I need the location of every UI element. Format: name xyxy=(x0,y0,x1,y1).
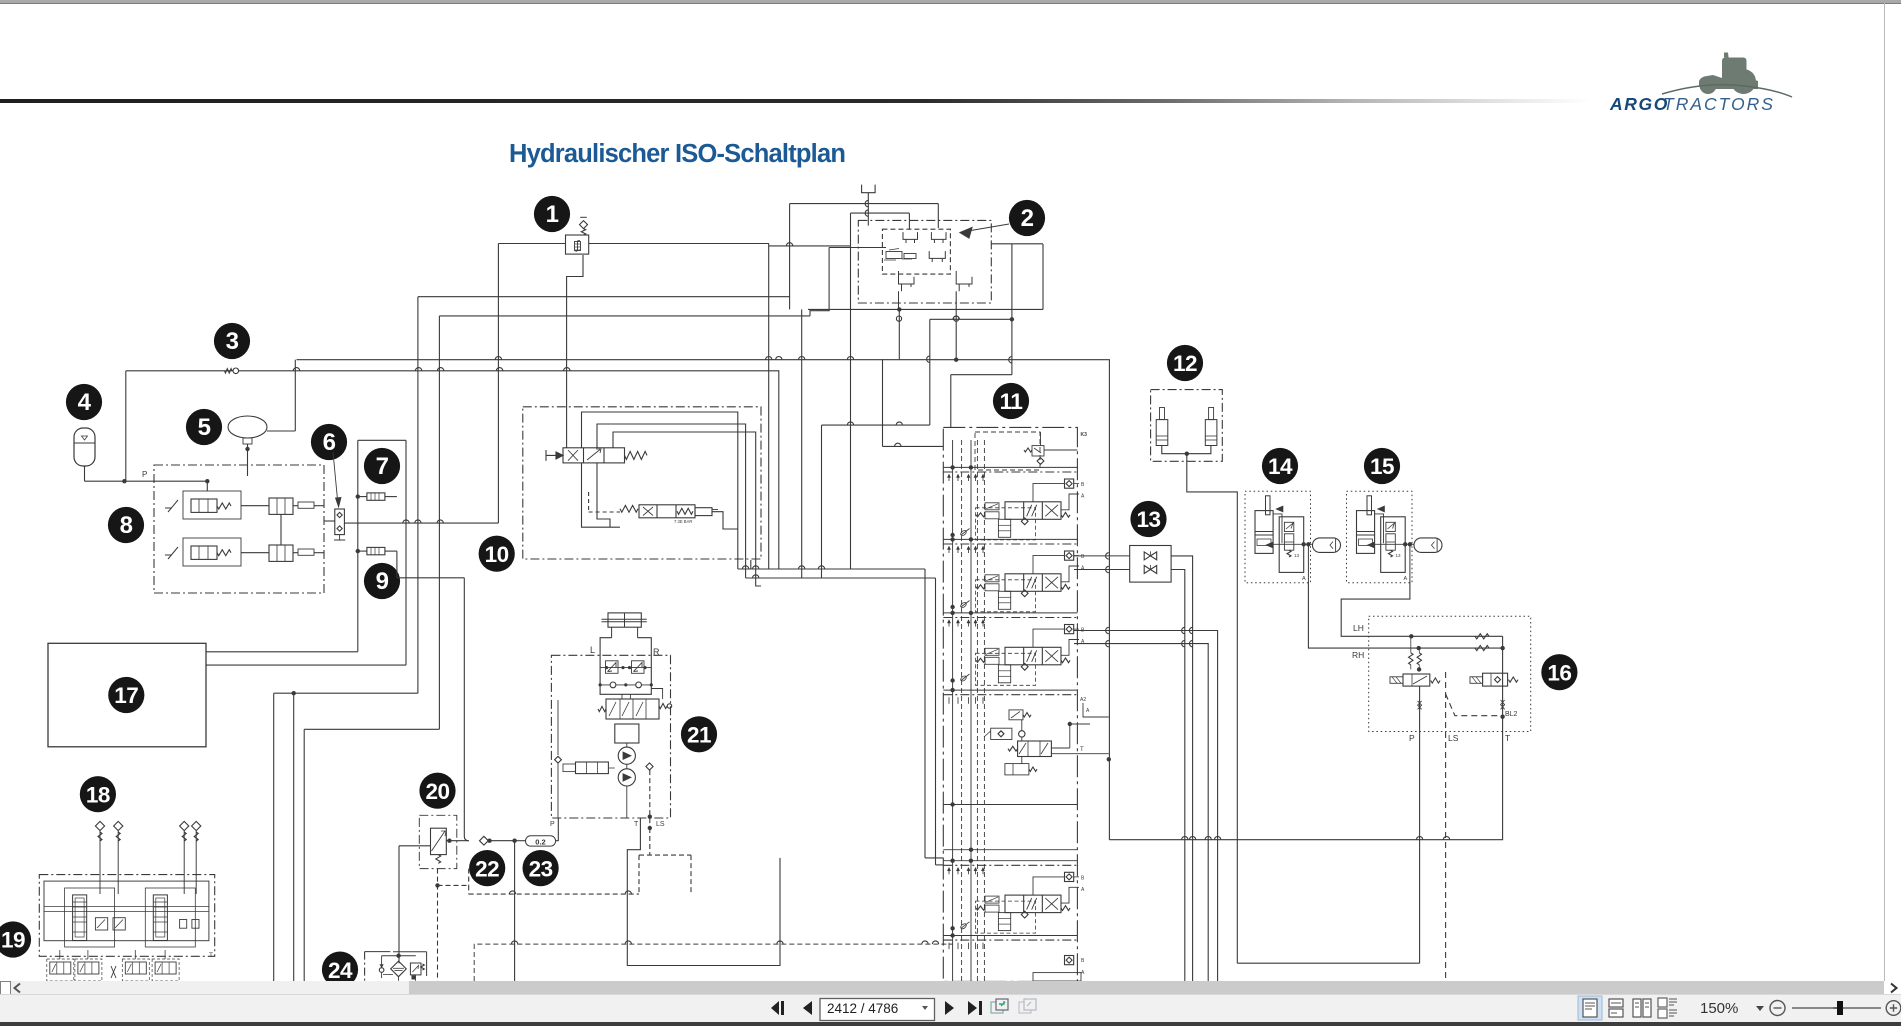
priority spool 6 xyxy=(324,452,345,540)
svg-text:17: 17 xyxy=(114,683,138,708)
accumulator 4 xyxy=(74,428,210,483)
pump valve upper xyxy=(165,481,324,519)
stack section S5 xyxy=(943,859,1085,934)
svg-text:P: P xyxy=(550,821,555,828)
toolbar icons xyxy=(0,994,1901,1022)
svg-text:20: 20 xyxy=(425,779,449,804)
hitch valve block 18/19 xyxy=(0,776,215,958)
valve stack 11 frame xyxy=(943,383,1087,982)
svg-text:LS: LS xyxy=(656,821,665,828)
cartridge 9 xyxy=(356,547,397,554)
svg-text:T: T xyxy=(1080,747,1084,753)
svg-text:P: P xyxy=(1409,733,1415,743)
wire item6 output xyxy=(344,520,498,523)
lower valves 19 xyxy=(47,950,179,981)
svg-text:13: 13 xyxy=(1136,507,1160,532)
svg-text:5: 5 xyxy=(198,414,211,441)
svg-text:A: A xyxy=(1081,887,1085,893)
svg-text:3: 3 xyxy=(226,328,239,355)
brake valve 14 xyxy=(1245,448,1341,583)
stack section S6 xyxy=(943,933,1085,981)
header gradient rule xyxy=(0,99,1592,103)
valve 1 pressure relief xyxy=(534,196,589,254)
svg-text:RH: RH xyxy=(1352,650,1364,660)
svg-text:23: 23 xyxy=(529,856,553,881)
trailer couplers 12 xyxy=(1151,345,1238,963)
proportional valve upper xyxy=(546,448,647,463)
svg-text:150%: 150% xyxy=(1700,1000,1738,1017)
svg-text:2412 / 4786: 2412 / 4786 xyxy=(827,1001,898,1016)
svg-text:1: 1 xyxy=(546,201,559,228)
toolbar xyxy=(0,994,1901,1023)
pump valve lower xyxy=(165,514,324,566)
steering LS line xyxy=(639,770,691,894)
ArgoTractors logo xyxy=(1600,48,1900,118)
oil reservoir 5 xyxy=(228,360,295,476)
svg-text:0.2: 0.2 xyxy=(535,838,545,847)
svg-text:9: 9 xyxy=(376,568,389,595)
svg-text:A: A xyxy=(1081,970,1085,976)
steering unit 21 xyxy=(590,613,717,753)
svg-text:7.3E BAR: 7.3E BAR xyxy=(674,519,692,524)
svg-text:B: B xyxy=(1081,958,1085,964)
wire suction lines xyxy=(418,244,1043,316)
svg-text:14: 14 xyxy=(1268,454,1293,479)
svg-text:11: 11 xyxy=(1000,389,1023,414)
top window bar xyxy=(0,0,1901,4)
svg-text:A: A xyxy=(1404,576,1408,582)
bottom dark bar xyxy=(0,1022,1901,1026)
svg-text:8: 8 xyxy=(120,512,133,539)
steering spool xyxy=(598,699,672,719)
svg-text:22: 22 xyxy=(475,856,499,881)
box10 outputs xyxy=(738,244,944,865)
page title xyxy=(509,140,845,169)
stack section S3 xyxy=(943,611,1085,686)
scrollbar left icons xyxy=(0,981,11,995)
svg-text:6: 6 xyxy=(323,429,336,456)
wire tank line top right xyxy=(769,204,939,569)
stack pilot rails xyxy=(953,440,985,981)
pressure relief lower 10 xyxy=(589,492,718,524)
svg-text:4: 4 xyxy=(78,389,92,416)
svg-text:A: A xyxy=(1086,708,1090,714)
wire T return bottom xyxy=(1109,732,1502,964)
svg-text:B: B xyxy=(1081,554,1085,560)
svg-text:T: T xyxy=(209,952,213,959)
svg-text:T: T xyxy=(1505,733,1510,743)
wire item9 drain xyxy=(397,551,469,841)
priority valve block 2 xyxy=(858,200,1045,321)
cartridge 7 xyxy=(356,493,397,500)
legend box 17 xyxy=(48,643,206,747)
stack inlet section xyxy=(975,432,1077,470)
solenoid valve 20 xyxy=(399,773,469,981)
tank symbol xyxy=(862,185,876,226)
throttle item 3 xyxy=(225,368,239,374)
svg-text:BL2: BL2 xyxy=(1505,711,1518,718)
svg-text:10: 10 xyxy=(485,542,509,567)
stack section S1 xyxy=(943,465,1085,540)
stack section S2 xyxy=(943,537,1085,612)
vertical scrollbar line xyxy=(1884,3,1885,981)
svg-text:T: T xyxy=(634,821,639,828)
steering aux valve xyxy=(555,700,654,818)
pump group 8 box xyxy=(142,465,324,593)
spool cartridges 19 xyxy=(44,888,213,959)
svg-text:L: L xyxy=(590,645,595,655)
svg-text:A2: A2 xyxy=(1080,697,1086,703)
svg-text:16: 16 xyxy=(1547,660,1571,685)
svg-text:2: 2 xyxy=(1021,205,1034,232)
svg-text:K3: K3 xyxy=(1081,432,1088,438)
trailer brake valve 16 xyxy=(1352,616,1578,981)
wire valve1 drain xyxy=(567,255,583,448)
svg-text:A: A xyxy=(1081,566,1085,572)
wire right feedback web xyxy=(802,309,1111,839)
svg-text:A: A xyxy=(1081,494,1085,500)
stack section S4 trailer valve xyxy=(943,688,1109,775)
svg-text:B: B xyxy=(1081,482,1085,488)
feedback loops 10 xyxy=(582,412,762,586)
pilot dashed main xyxy=(469,869,953,981)
pilot valve group 10 xyxy=(479,407,761,572)
wires from box 17 xyxy=(206,652,439,981)
wire tank returns left xyxy=(418,297,440,730)
svg-text:12: 12 xyxy=(1173,351,1197,376)
suction filter 24 xyxy=(322,952,427,988)
svg-text:19: 19 xyxy=(1,928,25,953)
shutoff valves 13 xyxy=(1074,501,1218,981)
svg-text:13: 13 xyxy=(1294,553,1300,558)
wire brake A lines xyxy=(1308,582,1502,648)
wire item3 long line xyxy=(126,368,779,482)
scrollbar right button xyxy=(1884,981,1901,994)
steering metering xyxy=(615,724,639,818)
stack empty section xyxy=(943,802,1077,852)
svg-text:B: B xyxy=(1081,875,1085,881)
svg-text:18: 18 xyxy=(86,782,110,807)
horizontal scrollbar xyxy=(0,981,1901,994)
relief stems 18 xyxy=(95,821,200,894)
svg-text:LH: LH xyxy=(1353,623,1364,633)
svg-text:P: P xyxy=(142,470,147,479)
numbered circles 3-9 xyxy=(66,323,400,599)
svg-text:LS: LS xyxy=(1448,733,1459,743)
wire P main from valve 1 left xyxy=(498,244,769,524)
svg-text:24: 24 xyxy=(328,958,353,983)
wire LS net mid xyxy=(297,244,1110,428)
check valve 22 xyxy=(469,836,517,886)
svg-text:15: 15 xyxy=(1370,454,1394,479)
svg-text:21: 21 xyxy=(687,723,711,748)
restrictor 23 xyxy=(515,818,559,981)
svg-text:A: A xyxy=(1302,576,1306,582)
steering dashdot box xyxy=(550,655,671,828)
svg-text:13: 13 xyxy=(1396,553,1402,558)
steering T drain xyxy=(627,818,780,966)
frame around 7 and 9 xyxy=(358,440,406,665)
svg-text:7: 7 xyxy=(376,453,389,480)
brake valve 15 xyxy=(1347,448,1443,583)
